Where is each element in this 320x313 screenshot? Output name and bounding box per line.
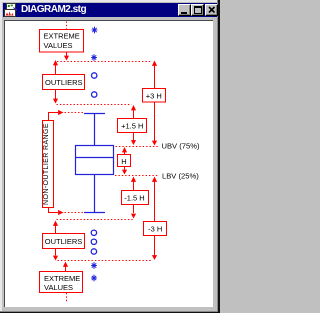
window frame dark edge bottom [0, 312, 218, 313]
maximize button [191, 4, 204, 16]
box plot upper whisker cap [84, 113, 105, 115]
svg-text:VALUES: VALUES [44, 41, 73, 50]
title bar [3, 3, 217, 17]
extreme value asterisk marker 1 [92, 27, 98, 34]
box plot lower whisker cap [84, 212, 105, 214]
+1.5 H label box [118, 119, 147, 133]
arrow from top outliers box down to inner fence [53, 90, 58, 104]
outlier circle marker 5 [91, 249, 96, 254]
content sunken border top [4, 20, 213, 21]
box plot upper whisker [94, 114, 96, 146]
svg-text:VALUES: VALUES [44, 283, 73, 292]
svg-text:NON-OUTLIER RANGE: NON-OUTLIER RANGE [43, 123, 50, 205]
lower inner fence dotted line [57, 219, 133, 221]
-1.5H arrow line [131, 177, 136, 219]
top bracket arrow of non-outlier range [49, 110, 64, 121]
bottom extreme values label box [40, 272, 83, 293]
outlier circle marker 2 [92, 92, 97, 97]
arrow from bottom outliers box up to inner fence [53, 221, 58, 234]
window frame shadow right [217, 0, 218, 313]
LBV dotted line [115, 175, 159, 177]
extreme value asterisk marker 2 [91, 54, 97, 61]
non-outlier range label box [43, 121, 54, 208]
bottom bracket arrow of non-outlier range [49, 208, 64, 216]
outlier circle marker 1 [92, 73, 97, 78]
window frame highlight left [0, 0, 2, 311]
window frame dark edge right [218, 0, 220, 313]
minimize button [178, 4, 191, 16]
top extreme values label box [40, 30, 84, 53]
upper outer fence dotted line [57, 61, 151, 63]
dotted vertical above top extreme-values box [66, 22, 68, 30]
close button [205, 4, 218, 16]
+3 H label box [143, 89, 166, 103]
svg-text:EXTREME: EXTREME [44, 274, 80, 283]
UBV dotted line [116, 146, 160, 148]
title bar icon [4, 3, 18, 17]
upper inner fence dotted line [57, 104, 132, 106]
extreme value asterisk marker 4 [91, 275, 97, 282]
upper whisker dotted line [65, 112, 84, 114]
content area [5, 21, 213, 307]
svg-text:H: H [121, 157, 126, 166]
svg-text:OUTLIERS: OUTLIERS [45, 78, 83, 87]
title text DIAGRAM2.stg [21, 4, 86, 15]
lower outer fence dotted line [58, 260, 153, 262]
-1.5 H label box [122, 191, 149, 205]
content sunken border left [4, 20, 5, 307]
outlier circle marker 4 [91, 239, 96, 244]
lower whisker dotted line [65, 212, 84, 214]
arrow from bottom outliers box down to outer fence [53, 249, 58, 261]
svg-text:EXTREME: EXTREME [44, 32, 80, 41]
arrow from top extreme-values box down to outer fence [64, 53, 69, 61]
svg-text:-3 H: -3 H [148, 225, 162, 234]
-3 H label box [144, 222, 167, 236]
top outliers label box [43, 75, 85, 90]
svg-text:OUTLIERS: OUTLIERS [45, 237, 83, 246]
svg-text:UBV (75%): UBV (75%) [162, 142, 200, 151]
+1.5H arrow line [131, 105, 136, 145]
window frame highlight top [0, 0, 218, 2]
LBV (25%) text [162, 172, 199, 181]
box plot lower whisker [94, 175, 96, 213]
svg-text:-1.5 H: -1.5 H [124, 194, 144, 203]
+3H arrow line [152, 61, 157, 146]
arrow from top outliers box up to outer fence [53, 60, 58, 75]
svg-text:+3 H: +3 H [146, 92, 162, 101]
extreme value asterisk marker 3 [91, 262, 97, 269]
box plot median line [76, 157, 114, 159]
outlier circle marker 3 [91, 230, 96, 235]
H label box [118, 155, 131, 167]
window frame shadow bottom [0, 311, 218, 312]
box plot box [76, 146, 114, 175]
H arrow line [122, 147, 127, 175]
bottom outliers label box [43, 234, 85, 249]
arrow from bottom extreme-values box up to outer fence [63, 262, 68, 272]
svg-text:+1.5 H: +1.5 H [121, 122, 143, 131]
-3H arrow line [152, 177, 157, 261]
UBV (75%) text [162, 142, 200, 151]
dotted vertical below bottom extreme-values box [66, 293, 68, 303]
svg-text:LBV (25%): LBV (25%) [162, 172, 199, 181]
